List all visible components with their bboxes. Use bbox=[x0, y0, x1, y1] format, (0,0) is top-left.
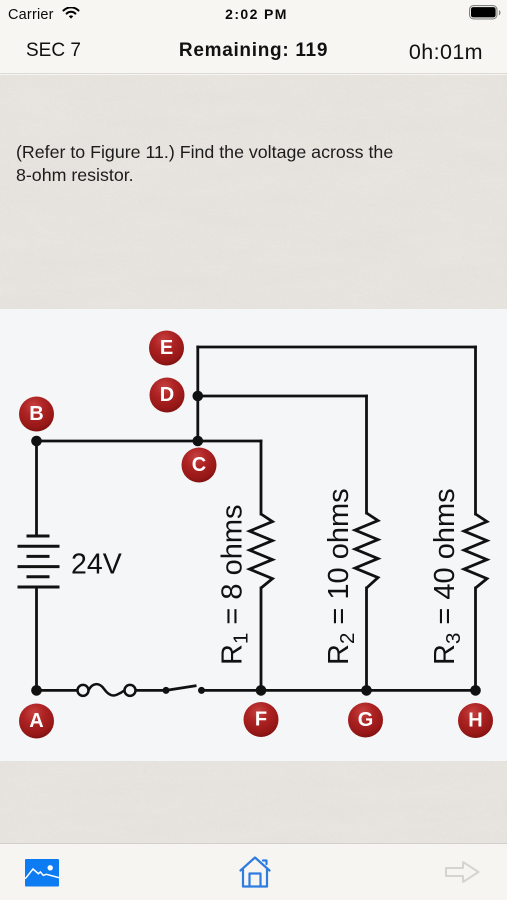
textured paper area top bbox=[0, 75, 507, 309]
svg-text:E: E bbox=[160, 337, 173, 359]
wifi icon bbox=[62, 7, 80, 20]
battery icon bbox=[469, 5, 503, 20]
wire bottom: A to fuse bbox=[37, 689, 78, 692]
toolbar photo icon bbox=[25, 859, 59, 887]
carrier label bbox=[8, 7, 54, 23]
node A bbox=[19, 704, 54, 739]
resistor R1 zigzag bbox=[250, 514, 273, 588]
svg-text:A: A bbox=[29, 710, 43, 732]
svg-text:B: B bbox=[29, 403, 43, 425]
toolbar next arrow icon bbox=[445, 860, 480, 884]
circuit figure bbox=[0, 309, 507, 761]
battery B1 plates bbox=[18, 536, 60, 587]
fuse F1 bbox=[78, 684, 136, 696]
svg-text:R3 = 40 ohms: R3 = 40 ohms bbox=[429, 488, 465, 665]
junction dot D bbox=[193, 391, 204, 402]
wire bottom: switch to H bbox=[202, 689, 476, 692]
nav: timer bbox=[409, 40, 483, 65]
junction dot C bbox=[193, 436, 204, 447]
node C bbox=[182, 448, 217, 483]
wire R1 rail upper bbox=[260, 441, 263, 514]
toolbar home icon bbox=[238, 855, 272, 889]
nav: remaining bbox=[0, 40, 507, 62]
svg-text:F: F bbox=[255, 709, 267, 731]
svg-text:R2 = 10 ohms: R2 = 10 ohms bbox=[323, 488, 359, 665]
junction dot A bbox=[31, 685, 42, 696]
junction dot G bbox=[361, 685, 372, 696]
wire left rail lower bbox=[35, 587, 38, 690]
resistor R2 zigzag bbox=[355, 513, 378, 588]
junction dot B bbox=[31, 436, 42, 447]
wire B-C horizontal bbox=[37, 440, 262, 443]
svg-text:H: H bbox=[468, 710, 482, 732]
textured paper area bottom bbox=[0, 761, 507, 843]
wire R2 rail upper bbox=[365, 396, 368, 513]
wire D horizontal bbox=[198, 395, 367, 398]
wire right rail upper bbox=[474, 347, 477, 514]
switch S1 contact dots bbox=[163, 687, 170, 694]
wire R1 rail lower bbox=[260, 588, 263, 690]
svg-text:G: G bbox=[358, 709, 374, 731]
svg-text:24V: 24V bbox=[71, 549, 122, 581]
svg-text:D: D bbox=[160, 384, 174, 406]
node D bbox=[150, 378, 185, 413]
svg-text:C: C bbox=[192, 454, 206, 476]
node F bbox=[244, 702, 279, 737]
node H bbox=[458, 703, 493, 738]
time bbox=[3, 6, 507, 22]
junction dot H bbox=[470, 685, 481, 696]
wire bottom: fuse to switch bbox=[136, 689, 167, 692]
toolbar background bbox=[0, 843, 507, 900]
wire R2 rail lower bbox=[365, 588, 368, 690]
nav: section bbox=[26, 40, 81, 62]
wire left rail upper bbox=[35, 441, 38, 536]
switch S1 blade bbox=[166, 686, 197, 691]
wire right rail lower bbox=[474, 588, 477, 690]
svg-text:R1 = 8 ohms: R1 = 8 ohms bbox=[217, 504, 253, 665]
resistor R3 zigzag bbox=[464, 514, 487, 588]
wire C vertical bbox=[196, 347, 199, 441]
question text bbox=[16, 141, 486, 188]
node G bbox=[348, 703, 383, 738]
node E bbox=[149, 331, 184, 366]
junction dot F bbox=[256, 685, 267, 696]
node B bbox=[19, 397, 54, 432]
status/nav bar background bbox=[0, 0, 507, 74]
wire top E horizontal bbox=[198, 346, 476, 349]
